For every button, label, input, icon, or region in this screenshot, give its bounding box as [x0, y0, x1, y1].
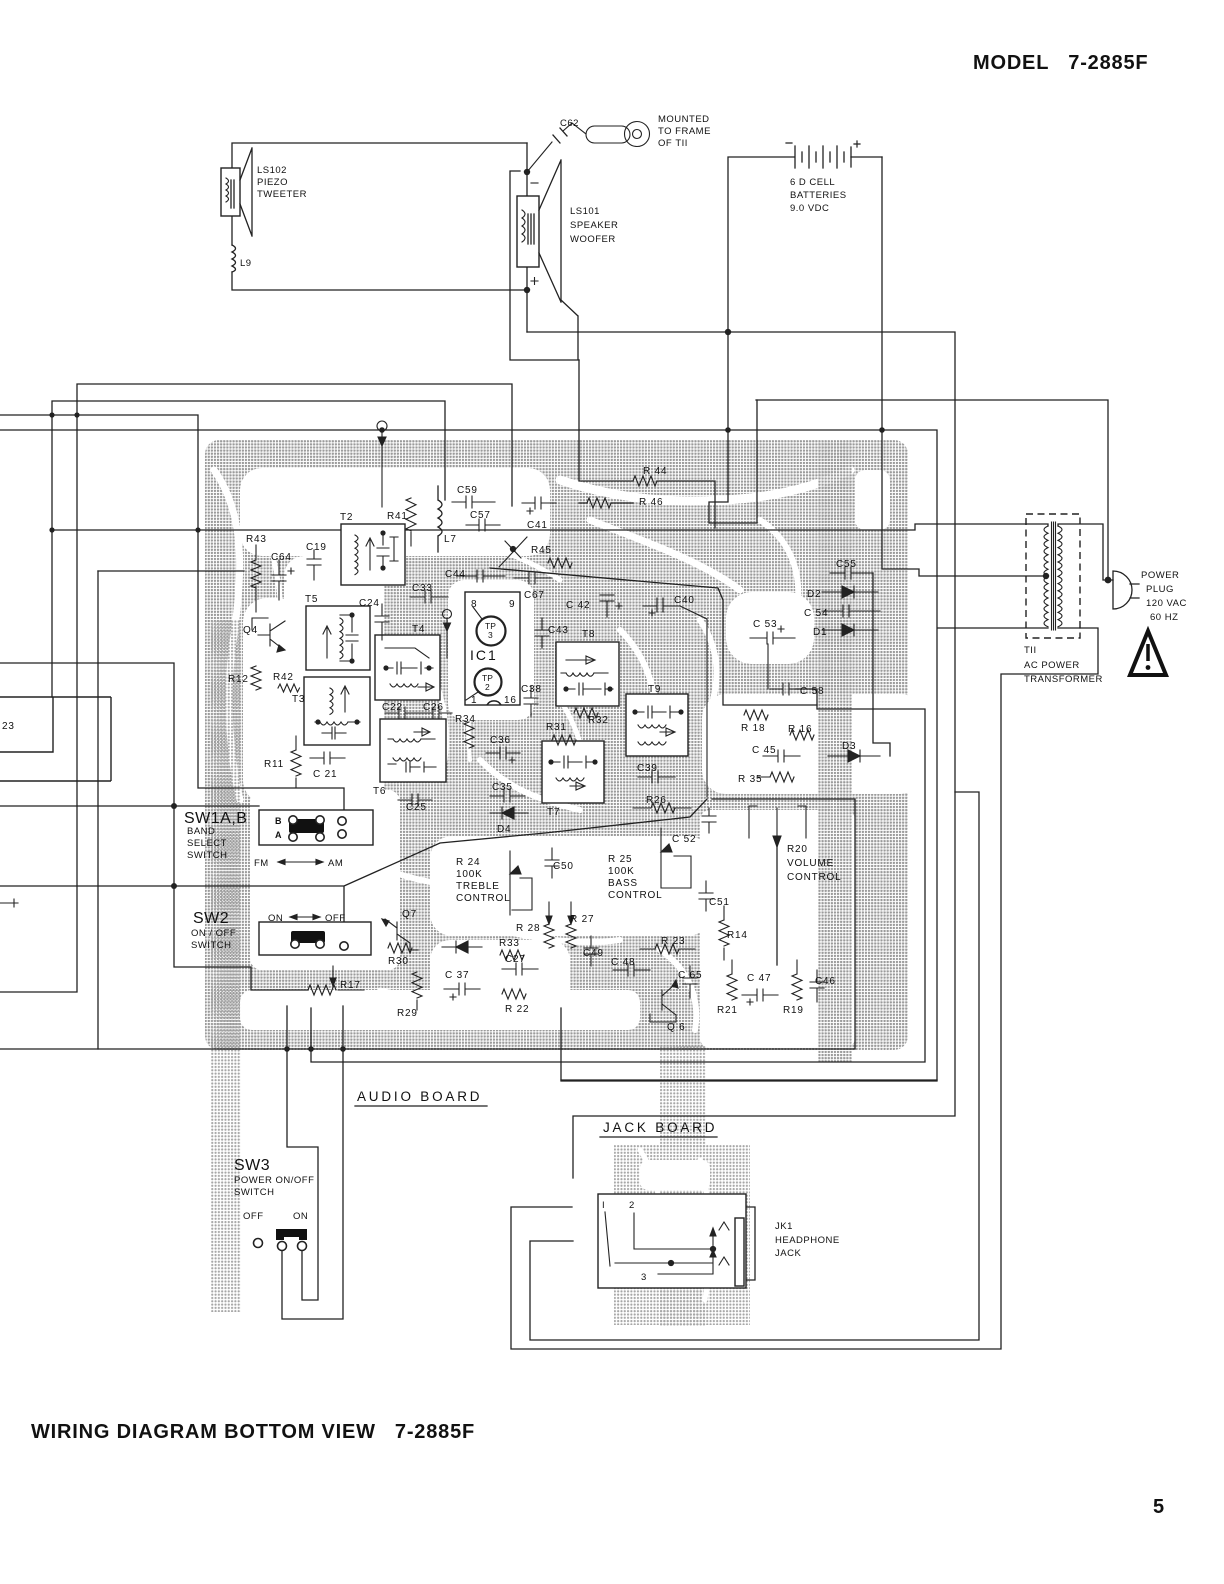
svg-text:R32: R32 [588, 715, 609, 726]
resistor R46 [587, 498, 611, 508]
svg-text:100K: 100K [456, 869, 483, 880]
wire C55 vertical [873, 573, 890, 756]
svg-text:C57: C57 [470, 510, 491, 521]
svg-text:R21: R21 [717, 1005, 738, 1016]
diode D3 [828, 750, 880, 762]
resistor R19 [792, 960, 802, 1000]
svg-text:T5: T5 [305, 594, 318, 605]
svg-text:C40: C40 [674, 595, 695, 606]
node SW2 feed x174 [171, 883, 177, 889]
svg-text:23: 23 [2, 721, 15, 732]
capacitor C35 [490, 790, 525, 802]
wire left nest C [0, 415, 344, 1049]
svg-text:C59: C59 [457, 485, 478, 496]
node sw3 feeds [284, 1046, 290, 1052]
ON OFF arrow [290, 914, 320, 919]
switch SW1A,B band select [259, 810, 373, 845]
warning triangle [1130, 631, 1166, 675]
transistor Q6 [650, 980, 678, 1022]
wire battery plus to transformer tap [882, 157, 1046, 576]
wire left stub y903 [0, 899, 18, 907]
capacitor C58 [770, 683, 817, 695]
svg-text:C19: C19 [306, 542, 327, 553]
svg-text:SW3: SW3 [234, 1157, 270, 1174]
node woofer plus [524, 287, 530, 293]
capacitor C59 [452, 496, 495, 508]
svg-text:CONTROL: CONTROL [456, 893, 511, 904]
capacitor C40 [643, 598, 680, 616]
svg-text:I: I [602, 1200, 605, 1211]
minus woofer [531, 182, 538, 184]
svg-text:C25: C25 [406, 802, 427, 813]
svg-text:SWITCH: SWITCH [191, 940, 231, 951]
svg-text:2: 2 [629, 1200, 635, 1211]
capacitor C25 [398, 794, 432, 806]
transformer T9 box [626, 694, 688, 756]
svg-text:SWITCH: SWITCH [234, 1187, 274, 1198]
svg-text:R43: R43 [246, 534, 267, 545]
svg-text:8: 8 [471, 599, 477, 610]
jack barrel [735, 1218, 744, 1286]
svg-text:60 HZ: 60 HZ [1150, 612, 1178, 623]
svg-text:R 27: R 27 [570, 914, 594, 925]
svg-text:R19: R19 [783, 1005, 804, 1016]
node tap [1043, 573, 1049, 579]
left gray column continuing below board [211, 1048, 241, 1312]
capacitor C65 [683, 966, 697, 998]
capacitor C53 [750, 626, 795, 644]
svg-text:D2: D2 [807, 589, 821, 600]
svg-text:C 54: C 54 [804, 608, 828, 619]
svg-text:R 23: R 23 [661, 936, 685, 947]
battery cells [786, 141, 860, 168]
capacitor C64 [272, 560, 294, 600]
svg-text:C41: C41 [527, 520, 548, 531]
svg-text:T8: T8 [582, 629, 595, 640]
svg-text:R20: R20 [787, 844, 808, 855]
svg-text:T2: T2 [340, 512, 353, 523]
jack bracket [747, 1207, 755, 1280]
svg-text:2: 2 [485, 682, 490, 692]
capacitor C45 [763, 750, 800, 762]
svg-text:MOUNTED: MOUNTED [658, 114, 710, 125]
inductor L9 [232, 245, 236, 272]
svg-text:Q4: Q4 [243, 625, 258, 636]
resistor R45 [548, 558, 572, 568]
svg-text:R33: R33 [499, 938, 520, 949]
wire battery box [709, 157, 882, 523]
svg-text:C35: C35 [492, 782, 513, 793]
op-amp IC1 box [465, 592, 520, 705]
transformer T5 box [306, 606, 370, 670]
wire left nest A [52, 401, 445, 697]
svg-text:R 44: R 44 [643, 466, 667, 477]
svg-text:C44: C44 [445, 569, 466, 580]
svg-text:CONTROL: CONTROL [787, 872, 842, 883]
svg-text:C 47: C 47 [747, 973, 771, 984]
svg-text:5: 5 [1153, 1496, 1165, 1518]
resistor R41 [406, 498, 416, 546]
wire C40 to C52 vertical [680, 606, 707, 797]
transformer T8 box [556, 642, 619, 706]
svg-text:VOLUME: VOLUME [787, 858, 834, 869]
capacitor C43 [535, 618, 549, 648]
resistor R23 [640, 944, 695, 954]
svg-text:L7: L7 [444, 534, 457, 545]
svg-text:OF TII: OF TII [658, 138, 688, 149]
svg-text:T4: T4 [412, 624, 425, 635]
wire C53 to C58 [767, 644, 769, 689]
svg-text:C24: C24 [359, 598, 380, 609]
svg-text:ON: ON [268, 913, 283, 924]
resistor R44 [633, 476, 657, 486]
node battery left junction [725, 329, 731, 335]
capacitor C41 [522, 497, 556, 514]
power plug [1113, 571, 1139, 609]
diode D5 [442, 941, 482, 953]
svg-text:Q 6: Q 6 [667, 1022, 686, 1033]
svg-text:OFF: OFF [243, 1211, 264, 1222]
svg-text:C 42: C 42 [566, 600, 590, 611]
svg-text:BAND: BAND [187, 826, 215, 837]
wire woofer frame link [510, 143, 579, 360]
capacitor C52 [702, 808, 716, 833]
node woofer minus [524, 169, 530, 175]
svg-text:R30: R30 [388, 956, 409, 967]
wire H429 long [0, 430, 937, 1081]
svg-text:R 28: R 28 [516, 923, 540, 934]
capacitor C39 [638, 771, 675, 783]
speaker LS101 woofer [517, 160, 561, 302]
diode D1 [822, 624, 878, 636]
resistor R35 [758, 772, 794, 782]
potentiometer R20 volume [749, 806, 806, 847]
svg-text:R 46: R 46 [639, 497, 663, 508]
capacitor C57 [466, 519, 500, 531]
wire SW3 right [282, 1006, 343, 1319]
svg-text:SPEAKER: SPEAKER [570, 220, 618, 231]
capacitor C37 [444, 983, 480, 1000]
svg-text:9.0 VDC: 9.0 VDC [790, 203, 829, 214]
svg-text:A: A [275, 830, 282, 840]
svg-text:TWEETER: TWEETER [257, 189, 307, 200]
resistor R29 [412, 972, 422, 1010]
svg-text:TII: TII [1024, 645, 1037, 656]
jack board box [598, 1194, 746, 1288]
svg-text:R11: R11 [264, 759, 284, 770]
svg-text:C51: C51 [709, 897, 730, 908]
capacitor C26 [418, 707, 452, 719]
wire volume pot stem [776, 845, 778, 965]
svg-text:R26: R26 [646, 795, 667, 806]
svg-text:AUDIO BOARD: AUDIO BOARD [357, 1089, 482, 1104]
wire under board 1080 [561, 1079, 937, 1081]
wire left nest B [0, 384, 512, 992]
svg-text:SELECT: SELECT [187, 838, 227, 849]
svg-text:OFF: OFF [325, 913, 346, 924]
capacitor C46 [810, 970, 824, 1002]
svg-text:PLUG: PLUG [1146, 584, 1174, 595]
svg-text:T3: T3 [292, 694, 305, 705]
white cut-outs inside audio board [240, 468, 550, 556]
transformer T4 box [375, 635, 440, 700]
resistor R16 [790, 730, 814, 740]
svg-text:POWER: POWER [1141, 570, 1179, 581]
headphone jack JK1 internals [605, 1212, 729, 1274]
resistor R33 [500, 950, 524, 960]
svg-text:R41: R41 [387, 511, 408, 522]
capacitor C36 [486, 747, 520, 763]
svg-text:R31: R31 [546, 722, 567, 733]
svg-text:T6: T6 [373, 786, 386, 797]
antenna plug symbol mid [443, 610, 452, 659]
FM AM arrow [278, 859, 323, 864]
capacitor C51 [699, 881, 713, 911]
svg-text:R17: R17 [340, 980, 361, 991]
svg-text:WOOFER: WOOFER [570, 234, 616, 245]
svg-text:C22: C22 [382, 702, 403, 713]
svg-text:C55: C55 [836, 559, 857, 570]
svg-text:B: B [275, 816, 282, 826]
svg-text:SW1A,B: SW1A,B [184, 810, 247, 827]
svg-text:C 37: C 37 [445, 970, 469, 981]
svg-text:R34: R34 [455, 714, 476, 725]
svg-text:HEADPHONE: HEADPHONE [775, 1235, 840, 1246]
audio board halftone [205, 440, 908, 1050]
svg-text:C 48: C 48 [611, 957, 635, 968]
capacitor C62 [553, 128, 567, 143]
capacitor C22 [385, 707, 418, 719]
wire SW3 left [287, 1006, 318, 1300]
svg-text:FM: FM [254, 858, 269, 869]
node SW1 feed x174 [171, 803, 177, 809]
switch SW3 power [254, 1233, 307, 1251]
svg-text:ON / OFF: ON / OFF [191, 928, 236, 939]
capacitor C67 [514, 572, 552, 584]
svg-text:C26: C26 [423, 702, 444, 713]
resistor R18 [744, 710, 768, 720]
wire jack loop inner [530, 792, 979, 1340]
svg-text:9: 9 [509, 599, 515, 610]
svg-text:R14: R14 [727, 930, 748, 941]
wire R43 feed [98, 570, 244, 572]
wire volume box [0, 799, 855, 1049]
svg-text:R12: R12 [228, 674, 249, 685]
svg-text:C 52: C 52 [672, 834, 696, 845]
svg-text:LS102: LS102 [257, 165, 287, 176]
capacitor C44 [458, 570, 505, 582]
svg-text:BASS: BASS [608, 878, 638, 889]
resistor R11 [291, 736, 301, 788]
resistor R17 [308, 966, 364, 995]
svg-text:R42: R42 [273, 672, 294, 683]
wire SW1 feed [0, 805, 259, 807]
svg-text:ON: ON [293, 1211, 308, 1222]
svg-text:AC POWER: AC POWER [1024, 660, 1080, 671]
svg-text:Q7: Q7 [402, 909, 417, 920]
resistor R22 [502, 989, 526, 999]
svg-text:C46: C46 [815, 976, 836, 987]
wire left nest D [0, 663, 308, 990]
transformer T6 box [380, 719, 446, 782]
transistor Q4 [252, 618, 285, 652]
svg-text:100K: 100K [608, 866, 635, 877]
wire R44 branch [579, 360, 715, 528]
capacitor C38 [524, 686, 538, 716]
svg-text:BATTERIES: BATTERIES [790, 190, 847, 201]
svg-text:120 VAC: 120 VAC [1146, 598, 1187, 609]
capacitor C55 [830, 567, 873, 579]
svg-text:T9: T9 [648, 684, 661, 695]
stylus crossing lines [499, 537, 527, 567]
wire tweeter loop top [232, 143, 527, 290]
potentiometer R24 [510, 851, 532, 915]
wire top H400 [756, 400, 1108, 580]
svg-text:T7: T7 [547, 807, 560, 818]
white trace channels in halftone [214, 470, 850, 1300]
capacitor C24 [375, 604, 389, 640]
capacitor C47 [742, 989, 778, 1005]
svg-text:PIEZO: PIEZO [257, 177, 288, 188]
svg-text:LS101: LS101 [570, 206, 600, 217]
svg-text:C27: C27 [505, 954, 526, 965]
wire jack loop outer [511, 628, 1098, 1349]
inductor L7 [438, 486, 442, 552]
svg-text:JACK BOARD: JACK BOARD [603, 1120, 717, 1135]
node plug junction [1105, 577, 1112, 584]
resistor R26 [633, 803, 691, 813]
svg-text:C50: C50 [553, 861, 574, 872]
wire under board 1062 [311, 689, 925, 1062]
svg-text:1: 1 [471, 695, 477, 706]
resistor R43 [251, 545, 261, 612]
wire SW2 feed and board diagonal [0, 799, 707, 922]
svg-text:3: 3 [641, 1272, 647, 1283]
svg-text:C 65: C 65 [678, 970, 702, 981]
capacitor C49 [584, 936, 598, 966]
svg-text:C64: C64 [271, 552, 292, 563]
svg-text:C62: C62 [560, 118, 579, 129]
capacitor C21 [310, 752, 345, 764]
transistor Q7 [382, 919, 418, 950]
svg-text:R 25: R 25 [608, 854, 632, 865]
resistor R21 [727, 960, 737, 1000]
transformer T2 box [341, 524, 405, 585]
svg-text:JK1: JK1 [775, 1221, 793, 1232]
transformer T7 box [542, 741, 604, 803]
svg-text:TO FRAME: TO FRAME [658, 126, 711, 137]
capacitor C50 [545, 848, 559, 878]
speaker LS102 piezo tweeter [221, 148, 252, 236]
resistor R14 [719, 906, 729, 960]
jack board halftone [614, 1145, 750, 1325]
wire woofer common to right [527, 332, 955, 1178]
svg-text:D4: D4 [497, 824, 511, 835]
svg-text:TREBLE: TREBLE [456, 881, 500, 892]
resistor R42 [278, 684, 300, 692]
svg-text:C 53: C 53 [753, 619, 777, 630]
svg-text:CONTROL: CONTROL [608, 890, 663, 901]
capacitor C19 [307, 550, 321, 580]
svg-text:D1: D1 [813, 627, 827, 638]
resistor R12 [251, 666, 261, 690]
svg-text:AM: AM [328, 858, 343, 869]
svg-text:C 21: C 21 [313, 769, 337, 780]
wire 23 box [0, 697, 111, 781]
svg-text:D3: D3 [842, 741, 856, 752]
wire diagonal center board [490, 568, 817, 705]
resistor R27 [566, 902, 576, 948]
svg-text:SWITCH: SWITCH [187, 850, 227, 861]
capacitor C48 [613, 964, 650, 976]
resistor R28 [544, 902, 554, 948]
transformer T11 dashed case [1026, 514, 1080, 638]
capacitor C54 [822, 605, 880, 617]
lug mounted to frame [586, 122, 650, 147]
svg-text:MODEL 7-2885F: MODEL 7-2885F [973, 52, 1148, 74]
transformer T11 windings [1044, 522, 1062, 630]
svg-text:IC1: IC1 [470, 647, 498, 663]
svg-text:R45: R45 [531, 545, 552, 556]
resistor R31 [552, 735, 576, 745]
svg-text:WIRING DIAGRAM BOTTOM VIEW 7: WIRING DIAGRAM BOTTOM VIEW 7-2885F [31, 1421, 475, 1443]
svg-text:C43: C43 [548, 625, 569, 636]
capacitor C33 [410, 591, 448, 603]
svg-text:C38: C38 [521, 684, 542, 695]
diode D2 [822, 586, 878, 598]
wire C62 diagonal [527, 123, 586, 172]
svg-text:R 22: R 22 [505, 1004, 529, 1015]
svg-text:C67: C67 [524, 590, 545, 601]
svg-text:JACK: JACK [775, 1248, 801, 1259]
svg-text:R29: R29 [397, 1008, 418, 1019]
resistor R34 [464, 722, 474, 748]
resistor R32 [574, 708, 598, 718]
wire H528 long to transformer [52, 524, 1026, 530]
potentiometer R25 [661, 828, 691, 888]
svg-text:C 58: C 58 [800, 686, 824, 697]
svg-text:16: 16 [504, 695, 517, 706]
svg-text:POWER ON/OFF: POWER ON/OFF [234, 1175, 314, 1186]
svg-text:C49: C49 [583, 948, 604, 959]
transformer T3 box [304, 677, 370, 745]
svg-text:R 35: R 35 [738, 774, 762, 785]
svg-text:R 18: R 18 [741, 723, 765, 734]
diode D4 [490, 807, 528, 819]
svg-text:3: 3 [488, 630, 493, 640]
antenna plug symbol top [377, 421, 387, 507]
svg-text:TRANSFORMER: TRANSFORMER [1024, 674, 1103, 685]
svg-text:R 24: R 24 [456, 857, 480, 868]
svg-text:C33: C33 [412, 583, 433, 594]
svg-text:C 45: C 45 [752, 745, 776, 756]
capacitor C42 [600, 595, 622, 617]
transformer T11 leads [938, 524, 1113, 628]
plus woofer [531, 278, 538, 285]
svg-text:SW2: SW2 [193, 910, 229, 927]
capacitor C27 [502, 963, 538, 975]
svg-text:R 16: R 16 [788, 724, 812, 735]
svg-text:L9: L9 [240, 258, 252, 269]
svg-text:C39: C39 [637, 763, 658, 774]
switch SW2 on/off [259, 922, 371, 955]
resistor R30 [388, 943, 412, 953]
svg-text:C36: C36 [490, 735, 511, 746]
svg-text:6 D CELL: 6 D CELL [790, 177, 835, 188]
